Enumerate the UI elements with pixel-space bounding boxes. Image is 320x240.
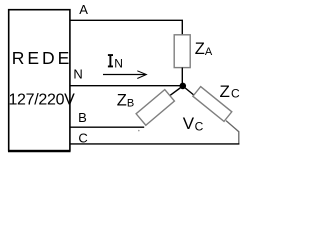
impedance Z_A xyxy=(174,35,190,68)
impedance Z_C xyxy=(193,87,232,122)
arrow I_N xyxy=(103,74,146,76)
wire node to Z_B xyxy=(170,86,183,96)
svg-text:N: N xyxy=(114,56,123,70)
svg-text:V: V xyxy=(183,114,195,133)
speck artifact xyxy=(138,130,140,132)
svg-text:C: C xyxy=(195,120,204,134)
svg-text:B: B xyxy=(127,97,134,109)
wire node to Z_C xyxy=(183,86,195,96)
svg-text:Z: Z xyxy=(117,92,127,110)
svg-text:C: C xyxy=(231,87,240,101)
box bottom thicker edge xyxy=(8,150,71,152)
wire C xyxy=(70,143,239,145)
svg-text:REDE: REDE xyxy=(12,48,73,68)
svg-text:N: N xyxy=(73,67,82,82)
svg-text:Z: Z xyxy=(195,40,205,58)
wire A xyxy=(70,20,182,35)
current label I_N xyxy=(108,55,113,66)
svg-text:127/220V: 127/220V xyxy=(8,92,75,109)
wire Z_C to C xyxy=(226,121,239,144)
wire Z_A to node xyxy=(181,68,183,84)
impedance Z_B xyxy=(136,90,174,126)
wire N xyxy=(70,85,181,87)
node junction dot xyxy=(180,83,187,90)
svg-text:A: A xyxy=(205,46,213,58)
svg-text:A: A xyxy=(79,2,88,17)
svg-text:C: C xyxy=(78,131,87,146)
source box REDE 127/220V xyxy=(9,10,70,151)
svg-text:Z: Z xyxy=(220,82,230,101)
wire B xyxy=(70,126,144,128)
svg-text:B: B xyxy=(78,110,87,125)
